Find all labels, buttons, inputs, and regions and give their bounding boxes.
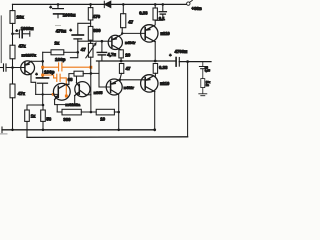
svg-text:+: + — [50, 6, 52, 10]
resistor 0.33 upper — [153, 4, 157, 20]
resistor 2k — [51, 50, 78, 55]
svg-text:+36в: +36в — [192, 6, 202, 11]
wire W1 to base U404 — [102, 40, 112, 42]
wire down to rail A — [118, 112, 120, 130]
diode D1 — [104, 1, 111, 7]
node x91 bus 68R — [90, 72, 93, 75]
svg-text:0,05: 0,05 — [205, 69, 211, 73]
node bracket — [42, 104, 45, 107]
wire U210a base — [122, 32, 145, 34]
wire mid rail — [97, 60, 177, 62]
wire vas base W1 — [78, 40, 102, 42]
svg-text:56: 56 — [46, 117, 51, 122]
wire top rail — [13, 3, 105, 5]
orange node upper — [41, 66, 44, 69]
orange wire 100p lower — [43, 74, 67, 95]
svg-text:300: 300 — [63, 117, 71, 122]
resistor 680 — [88, 26, 93, 43]
orange node on x91 bus — [89, 66, 92, 69]
resistor 20 — [119, 49, 123, 61]
svg-text:1000м: 1000м — [63, 12, 76, 17]
svg-text:100p: 100p — [44, 69, 55, 74]
node U402 emitter / U210b base — [119, 79, 122, 82]
transistor Q2 kt3102a — [53, 83, 70, 100]
capacitor zobel — [199, 62, 207, 79]
ground zobel — [199, 94, 207, 96]
svg-text:47: 47 — [126, 66, 131, 71]
wire x99 branch — [91, 61, 99, 73]
capacitor input — [0, 64, 25, 71]
wire Q1 emitter to node — [31, 60, 43, 62]
svg-text:0.33: 0.33 — [139, 11, 148, 16]
resistor 47k bias — [10, 45, 15, 67]
wire Q3 emitter down — [57, 96, 74, 105]
svg-text:4,7н: 4,7н — [107, 52, 116, 57]
resistor 1k — [25, 110, 30, 137]
node 2k / cap470m — [77, 51, 80, 54]
orange node at Q2 emitter — [65, 95, 68, 98]
capacitor 1000m bypass — [13, 30, 30, 38]
node top rail / C2 — [57, 3, 60, 6]
node bias divider — [11, 33, 14, 36]
svg-text:47к: 47к — [19, 44, 27, 49]
svg-text:20: 20 — [125, 52, 130, 57]
resistor 47 upper — [121, 4, 126, 27]
orange wire 100p upper — [43, 63, 91, 71]
resistor 300 — [62, 109, 96, 115]
node output rail — [186, 60, 189, 63]
resistor 47k load — [10, 68, 15, 130]
capacitor 0.1 — [155, 4, 166, 20]
svg-text:п402г: п402г — [124, 85, 135, 90]
wire Q2 collector up to 68 — [66, 83, 69, 85]
node W1 cap4.7n — [101, 40, 104, 43]
svg-text:п404г: п404г — [125, 40, 136, 45]
node top rail / R0.33 — [154, 3, 157, 6]
resistor 20k — [10, 4, 15, 45]
node top rail / R470 — [89, 3, 92, 6]
node base Q1 — [11, 66, 14, 69]
svg-text:680: 680 — [93, 28, 101, 33]
node bus bottom — [90, 111, 93, 114]
node rail A 47k — [11, 129, 14, 132]
resistor 10 — [96, 109, 119, 115]
orange node lower — [41, 74, 44, 77]
svg-text:1000м: 1000м — [21, 26, 34, 31]
svg-text:+: + — [36, 73, 38, 77]
node rail A 56 — [42, 129, 45, 132]
svg-text:47: 47 — [128, 19, 133, 24]
node rail A R10 — [117, 129, 120, 132]
capacitor electrolytic feedback — [37, 78, 49, 83]
node rail U210a collector — [154, 60, 157, 63]
wire Q3 base up — [76, 76, 78, 83]
svg-text:п210: п210 — [160, 81, 170, 86]
svg-text:кт3107к: кт3107к — [22, 53, 37, 58]
node top rail / R47 — [122, 3, 125, 6]
wire stub below node — [70, 52, 77, 57]
wire 2k branch corner — [43, 51, 51, 53]
capacitor 1000m rail — [53, 4, 64, 17]
wire U210a collector down — [154, 42, 156, 61]
svg-text:100p: 100p — [55, 57, 66, 62]
page border tick bottom-left — [0, 133, 7, 135]
wire top rail right part — [111, 3, 186, 5]
wire Q2 emitter down — [55, 100, 58, 112]
svg-text:68: 68 — [68, 77, 73, 82]
svg-text:20к: 20к — [17, 14, 25, 19]
wire feedback right vertical — [187, 62, 189, 137]
terminal input ground — [1, 127, 3, 133]
page border artifact left — [0, 16, 2, 63]
wire rail B feedback — [27, 136, 188, 139]
node rail R20 — [120, 60, 123, 63]
transistor U210b lower — [141, 75, 158, 92]
node U404 emitter / U210 base — [121, 32, 123, 34]
transistor Q1 kt3107k — [21, 61, 35, 75]
capacitor 4.7n — [97, 41, 106, 61]
node R10 collector U402 — [117, 111, 120, 114]
svg-text:1в: 1в — [206, 83, 209, 87]
wire U210b collector down — [154, 92, 156, 130]
resistor 0.33 lower — [153, 64, 157, 77]
orange node at Q2 base — [52, 93, 55, 96]
wire feedback column x42 — [42, 52, 44, 105]
node top rail / C0.1 — [162, 3, 165, 6]
svg-text:47: 47 — [81, 47, 86, 52]
wire U404 emitter up — [119, 28, 122, 36]
wire x99 to U402 base — [99, 73, 111, 87]
svg-text:47к: 47к — [18, 91, 26, 96]
svg-text:4700м: 4700м — [175, 49, 188, 54]
wire Q1 collector to Q2 base — [36, 93, 59, 95]
resistor 47 lower mid — [119, 64, 123, 80]
svg-text:10к: 10к — [206, 80, 211, 84]
resistor 68 — [69, 71, 91, 84]
transistor U404 p404g — [108, 35, 122, 49]
svg-text:+: + — [70, 28, 72, 32]
wire Q1 collector down — [31, 75, 36, 95]
wire U210b base — [120, 79, 145, 81]
transistor Q3 p605 — [75, 82, 90, 97]
node rail A U210b — [153, 128, 156, 131]
svg-text:0.33: 0.33 — [159, 65, 168, 70]
wire divider bracket — [27, 105, 43, 110]
wire U210a emitter up — [153, 20, 155, 26]
resistor 56 — [41, 105, 46, 130]
svg-text:п210: п210 — [160, 31, 170, 36]
wire U402 collector down — [117, 94, 120, 112]
node cap crossing base wire — [42, 93, 44, 95]
svg-text:470: 470 — [93, 14, 101, 19]
trimmer 47 — [86, 42, 97, 112]
wire Q3 collector to bus — [86, 94, 91, 96]
svg-text:10: 10 — [100, 117, 105, 122]
svg-text:2к: 2к — [55, 41, 60, 46]
resistor 470 — [88, 4, 93, 26]
wire bottom network — [57, 111, 62, 113]
transistor U402 p402g — [106, 79, 122, 95]
transistor U210a upper — [141, 25, 158, 42]
resistor zobel 10k — [201, 79, 205, 94]
capacitor 4700m — [176, 58, 211, 67]
wire rail A ground — [2, 129, 155, 131]
svg-text:470м: 470м — [56, 28, 66, 33]
node emitter Q1 — [41, 60, 44, 63]
svg-text:+: + — [16, 29, 18, 33]
capacitor 470m — [72, 23, 90, 52]
svg-text:п605: п605 — [94, 90, 104, 95]
svg-text:0.1: 0.1 — [159, 16, 166, 21]
ground smudge below 1000m — [56, 25, 61, 27]
terminal +36v — [187, 0, 193, 5]
